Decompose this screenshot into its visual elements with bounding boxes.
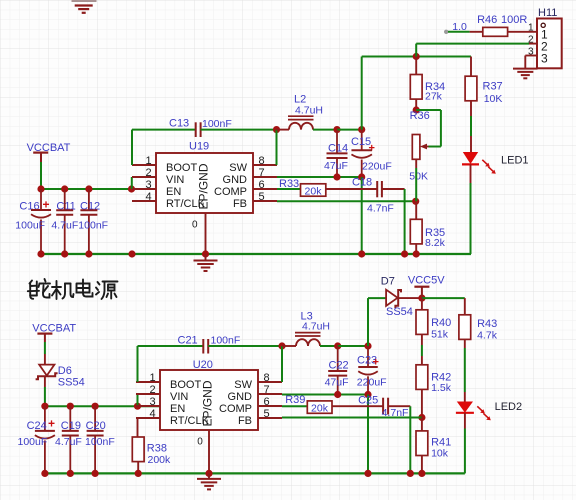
svg-text:220uF: 220uF xyxy=(362,161,392,173)
svg-text:FB: FB xyxy=(238,415,252,427)
svg-text:BOOT: BOOT xyxy=(170,379,201,391)
capacitor C16 plates (polarized) xyxy=(31,209,51,211)
svg-text:BOOT: BOOT xyxy=(166,162,197,174)
svg-text:R38: R38 xyxy=(147,443,167,455)
svg-text:EP/GND: EP/GND xyxy=(201,380,215,426)
node VOUT-A xyxy=(333,126,340,133)
node SW xyxy=(273,126,280,133)
svg-text:4.7uH: 4.7uH xyxy=(302,321,330,333)
wire SW riser (pin8) xyxy=(276,130,278,165)
svg-text:VIN: VIN xyxy=(170,391,188,403)
svg-text:H11: H11 xyxy=(538,7,557,19)
wire VIN drop (lower) xyxy=(137,394,139,406)
resistor R37 xyxy=(470,57,472,77)
U19 pin 8 xyxy=(253,164,277,166)
svg-text:SS54: SS54 xyxy=(386,306,413,318)
wire ground rail (lower circuit) xyxy=(45,472,465,474)
U19 pin 4 xyxy=(132,200,156,202)
capacitor C22 plates xyxy=(328,370,347,372)
svg-text:R39: R39 xyxy=(285,394,305,406)
capacitor C11 plates xyxy=(56,209,73,211)
svg-text:27k: 27k xyxy=(425,91,443,103)
svg-text:GND: GND xyxy=(223,174,248,186)
svg-text:R46: R46 xyxy=(477,14,497,26)
resistor R38 body xyxy=(132,437,144,462)
svg-text:5: 5 xyxy=(258,191,264,203)
svg-text:100R: 100R xyxy=(501,14,527,26)
svg-text:8.2k: 8.2k xyxy=(425,237,446,249)
svg-text:EN: EN xyxy=(170,403,185,415)
capacitor C11 xyxy=(64,189,66,210)
svg-text:1.5k: 1.5k xyxy=(431,382,452,394)
svg-text:3: 3 xyxy=(149,396,155,408)
svg-text:47uF: 47uF xyxy=(324,160,348,172)
LED2 xyxy=(457,402,473,413)
svg-text:47uF: 47uF xyxy=(325,376,349,388)
U20 pin 8 xyxy=(258,381,282,383)
node R34/R36 xyxy=(413,106,420,113)
resistor R46 xyxy=(448,31,470,33)
svg-text:100nF: 100nF xyxy=(211,335,241,347)
U19 pin 1 xyxy=(132,164,156,166)
svg-text:C13: C13 xyxy=(169,118,189,130)
svg-text:0: 0 xyxy=(197,437,203,448)
svg-text:R43: R43 xyxy=(477,318,497,330)
capacitor C15 plates (polarized) xyxy=(351,149,372,151)
U20 pin 1 xyxy=(136,381,160,383)
svg-text:7: 7 xyxy=(258,167,264,179)
ground (top-left, clipped) xyxy=(72,0,97,2)
U20 pin 2 xyxy=(136,393,160,395)
svg-text:VCC5V: VCC5V xyxy=(408,275,445,287)
capacitor C19 xyxy=(69,406,71,431)
resistor R34 xyxy=(415,57,417,75)
svg-text:10K: 10K xyxy=(484,93,503,105)
capacitor C15 xyxy=(361,130,363,151)
wire EN rail (lower) xyxy=(45,405,160,407)
svg-text:LED1: LED1 xyxy=(501,155,529,167)
capacitor C14 xyxy=(336,130,338,154)
svg-text:4.7uF: 4.7uF xyxy=(55,436,82,448)
LED1 xyxy=(463,152,478,164)
svg-text:220uF: 220uF xyxy=(357,376,387,388)
U20 pin 5 xyxy=(258,417,282,419)
svg-text:4.7uF: 4.7uF xyxy=(51,220,78,232)
svg-text:2: 2 xyxy=(145,167,151,179)
wire C13 to SW node xyxy=(201,129,277,131)
node VOUT-B xyxy=(358,126,365,133)
resistor R42 body xyxy=(416,365,428,390)
svg-text:1: 1 xyxy=(528,22,534,33)
svg-text:20k: 20k xyxy=(305,185,323,197)
svg-text:SS54: SS54 xyxy=(58,376,85,388)
wire FB (pin5) xyxy=(277,200,416,202)
wire VIN drop (pin2 to EN rail) xyxy=(131,177,133,189)
resistor R43 body xyxy=(459,315,471,340)
capacitor C20 xyxy=(94,406,96,431)
U19 pin 5 xyxy=(253,200,277,202)
wire C18 right to gnd rail xyxy=(404,189,406,254)
svg-text:20k: 20k xyxy=(311,402,329,414)
op IC U20 xyxy=(160,370,258,430)
svg-text:U20: U20 xyxy=(193,359,213,371)
svg-text:0: 0 xyxy=(192,219,198,230)
node SW (lower) xyxy=(278,342,285,349)
node FB (lower) xyxy=(418,414,425,421)
resistor R35 body xyxy=(410,219,422,244)
resistor R40 body xyxy=(416,310,428,335)
diode D6 SS54 xyxy=(39,365,54,376)
resistor R35 xyxy=(415,201,417,219)
svg-text:C22: C22 xyxy=(329,360,349,372)
wire to H11 pin2 xyxy=(415,44,417,57)
svg-text:4.7nF: 4.7nF xyxy=(382,407,409,419)
capacitor C14 plates xyxy=(327,152,348,154)
svg-text:100nF: 100nF xyxy=(202,118,232,130)
capacitor C22 xyxy=(337,346,339,371)
svg-text:4.7k: 4.7k xyxy=(477,330,498,342)
U19 pin 3 xyxy=(132,188,156,190)
svg-text:4: 4 xyxy=(149,408,155,420)
svg-text:R37: R37 xyxy=(483,81,503,93)
wire FB (lower) xyxy=(282,417,422,419)
U20 pin 0 (EP) stub xyxy=(208,430,210,473)
node VCC5V xyxy=(418,295,425,302)
svg-text:2: 2 xyxy=(528,34,534,45)
resistor R41 xyxy=(421,418,423,431)
resistor R34 body xyxy=(410,75,422,100)
svg-text:D6: D6 xyxy=(58,365,72,377)
wire GND pin7 (lower) xyxy=(282,394,368,396)
svg-text:3: 3 xyxy=(528,46,534,57)
op IC U19 xyxy=(156,153,253,213)
svg-text:U19: U19 xyxy=(189,141,209,153)
U20 pin 4 xyxy=(136,417,160,419)
U19 pin 7 xyxy=(253,176,277,178)
resistor R38 xyxy=(137,418,139,437)
capacitor C24 plates (polarized) xyxy=(35,430,55,432)
svg-text:100uF: 100uF xyxy=(15,220,45,232)
no-ERC marker xyxy=(444,30,448,34)
capacitor C16 xyxy=(40,189,42,210)
svg-text:7: 7 xyxy=(263,384,269,396)
svg-text:R36: R36 xyxy=(410,110,430,122)
svg-text:SW: SW xyxy=(229,162,247,174)
node R34 top xyxy=(413,53,420,60)
svg-text:C21: C21 xyxy=(178,335,198,347)
svg-text:2: 2 xyxy=(149,384,155,396)
U20 pin 3 xyxy=(136,405,160,407)
resistor R37 body xyxy=(465,76,477,101)
svg-text:100nF: 100nF xyxy=(78,220,108,232)
U20 pin 7 xyxy=(258,393,282,395)
U19 pin 6 xyxy=(253,188,277,190)
U19 pin 0 (EP) stub xyxy=(205,213,207,254)
ground symbol xyxy=(194,260,218,262)
svg-text:C25: C25 xyxy=(358,395,378,407)
capacitor C23 xyxy=(367,346,369,367)
wire C25 right to gnd rail xyxy=(409,406,411,473)
wire gnd drop x=361.7 xyxy=(361,177,363,254)
capacitor C12 plates xyxy=(80,209,97,211)
svg-text:EN: EN xyxy=(166,186,181,198)
U20 pin 6 xyxy=(258,405,282,407)
svg-text:4: 4 xyxy=(145,191,151,203)
svg-text:4.7nF: 4.7nF xyxy=(367,203,394,215)
svg-text:51k: 51k xyxy=(431,329,449,341)
H11 ground xyxy=(524,56,526,69)
capacitor C12 xyxy=(88,189,90,210)
wire VCCBAT stem xyxy=(40,162,42,186)
diode D7 SS54 xyxy=(368,297,386,299)
svg-text:4.7uH: 4.7uH xyxy=(295,105,323,117)
svg-text:COMP: COMP xyxy=(219,403,252,415)
svg-text:6: 6 xyxy=(258,179,264,191)
svg-text:VIN: VIN xyxy=(166,174,184,186)
svg-text:50K: 50K xyxy=(409,171,428,183)
wire VOUT top rail xyxy=(361,57,363,130)
resistor R40 xyxy=(421,298,423,310)
svg-text:5: 5 xyxy=(263,408,269,420)
svg-text:8: 8 xyxy=(263,372,269,384)
svg-text:100uF: 100uF xyxy=(18,436,48,448)
svg-text:R40: R40 xyxy=(431,317,451,329)
svg-text:3: 3 xyxy=(145,179,151,191)
node FB junction xyxy=(412,198,419,205)
svg-text:10k: 10k xyxy=(431,448,449,460)
diode D7 riser xyxy=(367,298,369,346)
wire EN rail xyxy=(41,188,156,190)
capacitor C21 xyxy=(137,346,139,382)
svg-text:FB: FB xyxy=(233,198,247,210)
svg-text:6: 6 xyxy=(263,396,269,408)
ground symbol xyxy=(197,478,221,480)
svg-text:+: + xyxy=(369,143,375,155)
svg-text:8: 8 xyxy=(258,155,264,167)
capacitor C23 plates (polarized) xyxy=(358,366,378,368)
capacitor C20 plates xyxy=(87,430,104,432)
resistor R43 xyxy=(464,298,466,315)
svg-text:COMP: COMP xyxy=(214,186,247,198)
capacitor C19 plates xyxy=(62,430,79,432)
svg-text:GND: GND xyxy=(228,391,253,403)
resistor R41 body xyxy=(416,431,428,456)
R36 wiper loop xyxy=(416,109,441,111)
svg-text:LED2: LED2 xyxy=(495,401,523,413)
node VCCBAT rail junctions xyxy=(37,185,44,192)
svg-text:1: 1 xyxy=(149,372,155,384)
wire VCC5V to R43 xyxy=(422,297,465,299)
svg-text:EP/GND: EP/GND xyxy=(197,163,211,209)
capacitor C24 xyxy=(44,406,46,431)
svg-text:3: 3 xyxy=(541,52,548,66)
LED2 arrows xyxy=(477,406,483,412)
svg-text:D7: D7 xyxy=(381,276,395,288)
wire GND pin7 to caps xyxy=(277,176,362,178)
LED1 arrows xyxy=(482,160,488,166)
svg-text:SW: SW xyxy=(234,379,252,391)
U19 pin 2 xyxy=(132,176,156,178)
svg-text:+: + xyxy=(48,417,55,431)
svg-text:200k: 200k xyxy=(148,454,172,466)
svg-text:1: 1 xyxy=(145,155,151,167)
capacitor C13 xyxy=(131,130,133,165)
H11 pin 3 xyxy=(525,55,537,57)
wire ground rail (top circuit) xyxy=(41,253,471,255)
svg-text:C18: C18 xyxy=(352,177,372,189)
title 舵机电源 (servo power) drawn strokes xyxy=(28,279,118,299)
svg-text:R41: R41 xyxy=(431,436,451,448)
svg-text:100nF: 100nF xyxy=(85,436,115,448)
